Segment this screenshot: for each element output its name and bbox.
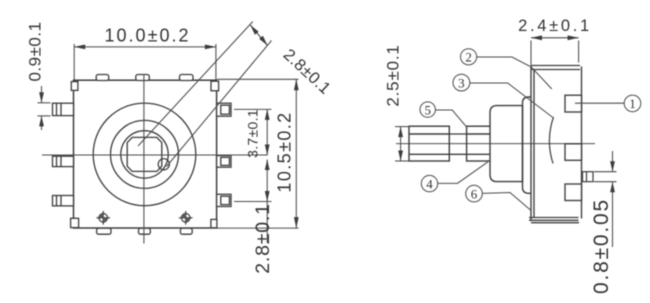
middle circle [111,120,179,188]
collar [467,126,490,161]
svg-text:2.8±0.1: 2.8±0.1 [252,203,274,274]
outer circle [93,103,196,206]
pin 2 square [565,144,582,161]
svg-text:0.8±0.05: 0.8±0.05 [590,198,613,294]
svg-text:3: 3 [458,76,465,91]
svg-text:0.9±0.1: 0.9±0.1 [26,21,45,81]
mount terminal [583,172,594,182]
diagonal dim line 2.8±0.1 [250,25,267,46]
svg-text:3.7±0.1: 3.7±0.1 [245,109,261,158]
dim 0.8±0.05 terminal [594,151,617,247]
axis center line [396,143,595,145]
diagonal extension line B [138,22,253,147]
dim 2.8±0.1 bottom right [234,160,272,244]
svg-text:2.4±0.1: 2.4±0.1 [518,17,592,35]
label 1 circle [575,95,641,112]
label 2 circle [461,49,552,89]
dim 10.5±0.2 right [217,79,299,228]
knurled shaft [409,126,449,161]
dim 10.0±0.2 top [74,44,216,80]
shaft hole octagon [127,137,162,171]
bottom tab 2 [139,228,151,234]
body cover [529,66,582,223]
svg-text:1: 1 [629,96,636,111]
svg-text:2: 2 [465,50,472,65]
position mark left [96,211,110,225]
left pin 2 [53,156,74,166]
inner circle [121,131,168,178]
svg-text:5: 5 [424,102,431,117]
center line horizontal [42,154,268,156]
corner step bottom-right [211,219,217,227]
corner step bottom-left [71,218,79,227]
dim 2.4±0.1 top [531,38,579,65]
center line vertical [143,74,145,244]
pin 3 square [565,184,582,201]
dim 2.5±0.1 shaft [395,127,409,161]
corner step top-right [211,81,219,91]
inner arc rotor contact [549,117,553,164]
left pin 3 [53,196,74,206]
svg-text:10.0±0.2: 10.0±0.2 [105,26,191,46]
bottom tab 1 [97,228,111,234]
diagonal extension line A [167,41,272,167]
svg-text:6: 6 [471,186,478,201]
label 6 circle [466,185,531,210]
bottom tab 3 [180,228,192,234]
svg-text:4: 4 [426,176,433,191]
dim 3.7±0.1 [234,109,272,155]
shaft groove [449,134,466,154]
top tab 3 [180,75,194,81]
label 3 circle [453,74,554,118]
svg-text:2.8±0.1: 2.8±0.1 [280,46,335,99]
rotor disc [523,97,532,193]
left pin 1 [53,103,74,115]
position mark right [179,211,193,225]
svg-text:10.5±0.2: 10.5±0.2 [275,111,295,192]
body outline [74,80,217,228]
dim 0.9±0.1 left [38,86,51,130]
corner step top-left [71,82,78,91]
pin 1 square [565,95,582,112]
right tab 3 [217,194,231,206]
bushing flange [490,106,523,182]
orientation notch [158,159,169,170]
right tab 1 [217,103,231,116]
top tab 2 [136,75,150,81]
label 4 circle [421,162,488,192]
label 5 circle [420,102,466,126]
right tab 2 [217,156,231,168]
top tab 1 [96,75,109,81]
svg-text:2.5±0.1: 2.5±0.1 [384,44,403,106]
